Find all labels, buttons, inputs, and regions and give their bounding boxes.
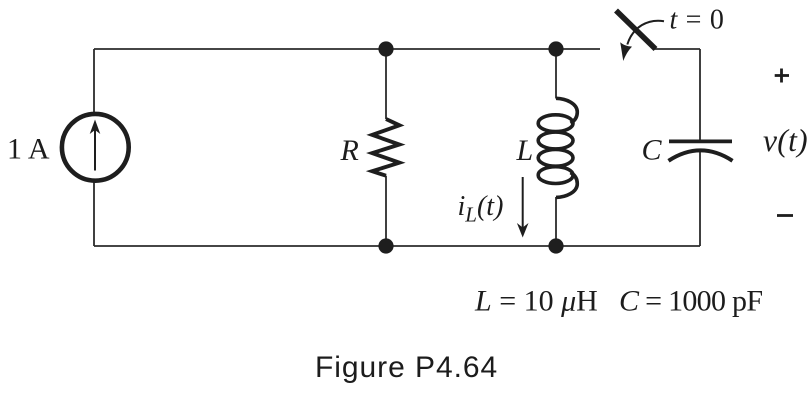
resistor R: [372, 119, 399, 176]
arrow iL(t): [517, 177, 529, 238]
wire inductor bottom lead: [555, 197, 557, 246]
switch opening arrow: [620, 21, 664, 61]
svg-text:C: C: [642, 134, 663, 167]
wire left upper: [93, 49, 95, 113]
svg-text:L: L: [516, 134, 534, 167]
switch SW blade: [616, 11, 656, 50]
svg-text:1 A: 1 A: [7, 133, 50, 166]
wire resistor top lead: [385, 49, 387, 119]
node top-resistor: [378, 41, 393, 56]
wire right upper (to capacitor): [699, 49, 701, 140]
svg-text:v(t): v(t): [763, 123, 808, 158]
svg-text:R: R: [340, 134, 359, 167]
svg-text:t = 0: t = 0: [670, 5, 725, 36]
wire right lower (from capacitor): [699, 151, 701, 246]
wire switch to corner: [654, 48, 700, 50]
wire left lower: [93, 181, 95, 246]
svg-text:iL(t): iL(t): [458, 191, 504, 227]
svg-text:L = 10 μH: L = 10 μH: [474, 285, 598, 318]
node bottom-resistor: [378, 238, 393, 253]
inductor L: [538, 98, 577, 197]
label plus: [775, 69, 789, 83]
svg-text:C = 1000 pF: C = 1000 pF: [619, 285, 763, 318]
wire top: [94, 48, 600, 50]
node bottom-inductor: [548, 238, 563, 253]
current source I1: [62, 114, 129, 181]
node top-inductor: [548, 41, 563, 56]
wire bottom: [94, 245, 700, 247]
wire resistor bottom lead: [385, 176, 387, 246]
svg-text:Figure P4.64: Figure P4.64: [315, 351, 498, 384]
label minus: [777, 214, 793, 217]
capacitor C: [669, 141, 733, 160]
wire inductor top lead: [555, 49, 557, 99]
